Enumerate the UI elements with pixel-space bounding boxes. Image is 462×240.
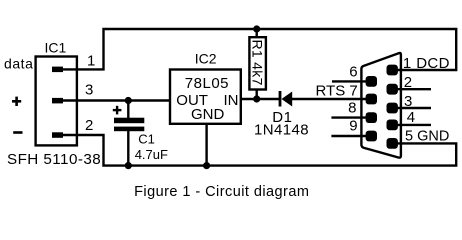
svg-text:3: 3 (404, 93, 412, 110)
label - (IC1 pin2) (13, 131, 22, 134)
svg-text:5 GND: 5 GND (405, 129, 449, 145)
svg-text:RTS 7: RTS 7 (316, 82, 358, 99)
DB9 pin 2 (387, 84, 398, 95)
svg-text:R1 4k7: R1 4k7 (250, 40, 266, 86)
DB9 pin 6 (366, 76, 377, 87)
svg-text:SFH 5110-38: SFH 5110-38 (7, 151, 101, 168)
svg-text:IC1: IC1 (45, 40, 67, 56)
wire IC1 pin2 to bottom rail (60, 135, 456, 166)
svg-text:2: 2 (404, 74, 412, 91)
wire C1 bottom lead (127, 131, 129, 166)
capacitor C1 plate top (114, 118, 144, 124)
DB9 connector outline (361, 53, 401, 158)
svg-text:4.7uF: 4.7uF (135, 147, 168, 162)
DB9 pin 9 (366, 131, 377, 142)
svg-text:1 DCD: 1 DCD (403, 55, 450, 72)
junction node at IC2 GND on ground rail (203, 162, 210, 169)
svg-text:6: 6 (349, 64, 357, 81)
capacitor C1 plate bottom (114, 127, 144, 132)
junction node at C1 bottom on ground rail (125, 162, 132, 169)
IC1 connector body (SFH 5110-38) (36, 57, 77, 146)
wire C1 top lead (127, 101, 129, 120)
wire R1 bottom lead (256, 90, 258, 100)
wire IC1 pin1 inside box (60, 68, 77, 70)
svg-text:2: 2 (85, 117, 93, 134)
DB9 pin 4 (387, 120, 398, 131)
svg-text:data: data (4, 56, 33, 72)
junction node at R1 bottom on IN net (253, 95, 260, 102)
DB9 pin 7 (366, 94, 377, 105)
IC1 pin 3 contact (52, 98, 63, 104)
svg-text:C1: C1 (138, 131, 155, 146)
junction node at R1 top on rail (253, 25, 260, 32)
DB9 pin 5 (387, 138, 398, 149)
diode D1 cathode bar (279, 91, 282, 107)
svg-text:4: 4 (407, 109, 415, 126)
wire DB9 pin9 stub (331, 135, 371, 137)
junction node at C1 top (125, 97, 132, 104)
wire DB9 pin2 stub (392, 88, 431, 90)
op-amp IC2 regulator body 78L05 (170, 70, 241, 124)
svg-text:1N4148: 1N4148 (254, 121, 309, 138)
IC1 pin 2 contact (52, 132, 63, 138)
svg-text:GND: GND (191, 106, 225, 123)
label + (IC1 pin3) (12, 100, 21, 103)
wire diode D1 to DB9 pin7 (RTS) (292, 98, 371, 100)
svg-text:9: 9 (349, 117, 357, 134)
wire IC2 GND lead (205, 124, 207, 166)
wire DB9 pin6 stub (332, 80, 371, 82)
svg-text:78L05: 78L05 (185, 75, 229, 92)
diode D1 triangle (282, 92, 293, 107)
DB9 pin 8 (366, 112, 377, 123)
wire top rail (data net from IC1 pin1 to DB9 pin1) (76, 29, 456, 70)
DB9 pin 3 (387, 103, 398, 114)
label + (C1 polarity) (113, 109, 122, 111)
wire DB9 pin3 stub (392, 107, 431, 109)
IC1 pin 1 contact (52, 67, 63, 73)
DB9 pin 1 (387, 65, 398, 76)
wire IC2 IN to diode D1 (241, 98, 279, 100)
svg-text:IN: IN (224, 92, 239, 109)
svg-text:3: 3 (85, 81, 93, 98)
svg-text:IC2: IC2 (195, 51, 217, 67)
wire DB9 pin4 stub (392, 124, 431, 126)
svg-text:Figure 1 - Circuit diagram: Figure 1 - Circuit diagram (134, 184, 309, 200)
wire IC1 pin3 to IC2 OUT (60, 99, 170, 101)
svg-text:8: 8 (348, 99, 356, 116)
wire DB9 pin8 stub (331, 116, 371, 118)
resistor R1 body (249, 37, 266, 89)
svg-text:1: 1 (87, 53, 95, 70)
wire R1 top lead (256, 29, 258, 37)
